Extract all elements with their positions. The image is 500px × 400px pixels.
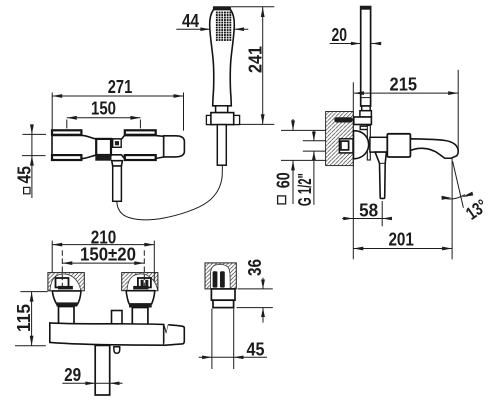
dim 201 arrow left <box>353 247 363 251</box>
dim 150 ext line left <box>66 120 68 129</box>
dim 29 arrow right <box>110 382 120 386</box>
holder clamp ring <box>360 126 370 129</box>
dim 36 stub bottom <box>262 308 264 323</box>
escutcheon plate left top <box>52 130 81 135</box>
neck left <box>59 307 75 325</box>
diverter small square <box>113 139 122 147</box>
wall section hatched block <box>326 112 354 166</box>
holder rod joint line <box>361 97 371 99</box>
hose nut right tab <box>233 115 239 124</box>
dim 210 line <box>52 244 154 246</box>
cartridge square cover <box>96 139 111 155</box>
dim 215 line <box>354 92 458 94</box>
svg-text:20: 20 <box>332 25 348 45</box>
union dome left <box>50 274 81 291</box>
dim 150pm20 arrow left <box>62 261 72 265</box>
diverter inner black square <box>115 141 119 145</box>
G half inch connection inner square <box>341 141 349 150</box>
escutcheon plate right top <box>125 130 156 135</box>
angle arc <box>445 195 466 199</box>
wall square right hatched <box>122 273 158 291</box>
G half inch ext line top <box>303 140 326 142</box>
dim 44 line <box>176 28 248 30</box>
dim sq45 stub line <box>31 127 33 199</box>
escutcheon bell right <box>126 291 155 304</box>
G half inch connection outer square <box>339 139 353 153</box>
dim 271 ext line right <box>183 93 185 131</box>
dim 45 arrow right <box>234 356 244 360</box>
holder rod top cap <box>360 6 371 10</box>
svg-text:201: 201 <box>388 229 414 249</box>
dim 150pm20 line <box>62 262 144 264</box>
escutcheon bell rim right <box>129 304 152 308</box>
water stream plumb line <box>451 159 453 260</box>
union base bar left <box>58 286 73 290</box>
dim 58 line <box>342 218 392 220</box>
svg-text:150±20: 150±20 <box>80 244 136 264</box>
bracket silhouette in wall <box>211 264 231 288</box>
hand shower top cap <box>213 6 231 9</box>
dim 115 line <box>31 292 33 346</box>
wall face line <box>352 82 354 259</box>
dim 58 ext stub lever <box>381 201 383 226</box>
spout end piece front <box>164 325 184 346</box>
svg-text:60: 60 <box>274 172 294 188</box>
dim 36 arrow top <box>261 280 265 289</box>
union nut square right <box>138 278 151 287</box>
dim 215 arrow left <box>354 91 364 95</box>
body joint line front <box>163 324 165 345</box>
dim 36 arrow bottom <box>261 308 265 317</box>
svg-text:36: 36 <box>245 259 265 276</box>
bracket body upper <box>211 289 235 300</box>
cartridge black base <box>95 155 111 161</box>
dim 210 arrow left <box>52 243 62 247</box>
dim 150pm20 arrow right <box>134 261 144 265</box>
dim 44 arrow right <box>234 27 244 31</box>
shower holder bracket front <box>112 311 123 325</box>
dim 20 arrow right <box>371 42 381 46</box>
body cube <box>387 134 410 157</box>
dim 241 ext line top <box>231 6 274 8</box>
dim 29 line <box>62 382 122 384</box>
dim 115 ext line bottom <box>15 345 46 347</box>
escutcheon plate edge-on <box>367 126 370 161</box>
G half inch ext line bottom <box>303 150 326 152</box>
G half inch stub top <box>313 131 315 141</box>
bracket anchor bar b <box>220 271 225 287</box>
dim 45 ext line left <box>211 309 213 369</box>
hand shower holder column <box>95 345 110 395</box>
dim 271 arrow left <box>52 94 62 98</box>
dim 241 ext line bottom <box>238 123 275 125</box>
svg-text:29: 29 <box>64 365 81 385</box>
body neck tube <box>370 137 387 152</box>
svg-text:115: 115 <box>14 304 34 332</box>
dim 58 arrow right <box>382 217 392 221</box>
union base bar right <box>133 286 148 290</box>
hose connector tube <box>217 125 226 166</box>
dim 60 ext line bottom <box>281 159 326 161</box>
centerline left connection <box>61 250 63 290</box>
G half inch arrow bottom <box>312 151 316 160</box>
dim 60 stub bottom <box>292 160 294 204</box>
hand shower neck <box>216 106 228 113</box>
dim 29 arrow left <box>85 382 95 386</box>
dim 60 ext line top <box>281 129 326 131</box>
shower outlet stem tube <box>113 166 122 201</box>
hose nut <box>211 113 234 125</box>
G half inch arrow top <box>312 132 316 141</box>
union inner bar b <box>145 280 148 287</box>
svg-text:215: 215 <box>390 74 418 94</box>
dim sq45 arrow bottom <box>30 156 34 166</box>
union nut square left <box>56 278 69 287</box>
escutcheon bell left <box>52 291 81 305</box>
dim 45 line <box>199 356 267 358</box>
svg-text:58: 58 <box>359 200 378 220</box>
dim 150 line <box>67 117 141 119</box>
dim 210 ext line left <box>51 241 53 273</box>
dim 150 ext line right <box>139 120 141 129</box>
dim 201 line <box>353 248 452 250</box>
svg-text:44: 44 <box>182 11 199 31</box>
dim 44 arrow left <box>200 27 210 31</box>
dim 36 ext line top <box>238 288 273 290</box>
svg-text:G 1/2": G 1/2" <box>295 173 315 206</box>
dim 20 line right <box>371 43 381 45</box>
wall dome escutcheon <box>354 131 369 159</box>
dim 60 square symbol <box>278 196 286 204</box>
wall square hatched detail <box>205 263 236 289</box>
dim 210 ext line right <box>153 241 155 290</box>
mixer body plan outline <box>52 135 164 158</box>
escutcheon plate right bottom <box>125 155 156 160</box>
dim 241 arrow top <box>261 7 265 17</box>
dim 58 arrow left <box>343 217 353 221</box>
dim 271 line <box>52 95 183 97</box>
bracket body lower <box>213 300 234 307</box>
svg-text:271: 271 <box>108 77 133 97</box>
connection black bar in wall <box>334 117 353 122</box>
hose curve from stem to hand shower <box>117 166 223 220</box>
angle arc arrow right <box>462 192 474 198</box>
spout angle 13 deg line <box>453 161 464 208</box>
hose nut left tab <box>206 115 211 124</box>
dim 115 arrow top <box>30 292 34 302</box>
spout joint line <box>163 136 165 157</box>
dim 210 arrow right <box>144 243 154 247</box>
dim 271 arrow right <box>174 94 184 98</box>
dim 271 ext line left <box>51 93 53 130</box>
wall square left hatched <box>48 273 84 291</box>
mixer body front outline <box>50 323 164 345</box>
dim 45 ext line right <box>233 309 235 369</box>
dim 215 arrow right <box>448 91 458 95</box>
G half inch stub bottom <box>313 151 315 205</box>
hand shower body outline <box>210 10 235 106</box>
svg-text:45: 45 <box>14 166 34 184</box>
dim 201 arrow right <box>442 247 452 251</box>
centerline right connection <box>143 250 145 290</box>
rod clamp nut <box>360 111 372 117</box>
dim 150 arrow left <box>67 116 77 120</box>
dim 150 arrow right <box>130 116 140 120</box>
dim 45 arrow left <box>202 356 212 360</box>
dim sq45 ext line bottom <box>22 155 46 157</box>
svg-text:150: 150 <box>91 99 116 119</box>
holder rod <box>361 7 371 106</box>
svg-text:45: 45 <box>247 340 265 360</box>
rod lower segment <box>362 106 371 111</box>
dim sq45 arrow top <box>30 124 34 134</box>
lever joint line <box>380 162 386 164</box>
dim 215 ext line right <box>457 70 459 151</box>
spout side profile <box>410 139 458 158</box>
spout plan bullet <box>164 136 185 157</box>
dim 115 ext line top <box>20 291 47 293</box>
dim sq45 square symbol <box>24 187 30 193</box>
dim 241 line <box>262 7 264 124</box>
dim 60 arrow bottom <box>291 160 295 170</box>
dim sq45 ext line top <box>23 133 47 135</box>
dim 36 stub top <box>262 278 264 289</box>
dim 20 line left <box>330 43 361 45</box>
dim 241 arrow bottom <box>261 114 265 124</box>
escutcheon bell rim left <box>57 302 78 306</box>
dim 60 arrow top <box>291 120 295 130</box>
holder arm to wall <box>354 117 372 125</box>
shower outlet stem neck <box>112 161 123 166</box>
bracket anchor bar a <box>213 271 218 287</box>
dim 36 ext line bottom <box>237 307 273 309</box>
lever handle <box>375 152 386 198</box>
escutcheon plate left bottom <box>52 155 81 160</box>
svg-text:241: 241 <box>246 46 266 73</box>
aerator detail <box>114 347 120 354</box>
union inner bar a <box>141 280 144 287</box>
dim 60 stub top <box>292 119 294 130</box>
dim 20 arrow left <box>351 42 361 46</box>
union dome right <box>127 274 158 291</box>
angle arc arrow left <box>442 196 452 200</box>
spray face grid <box>216 12 231 41</box>
joint V notch <box>164 325 168 334</box>
neck right <box>132 308 148 325</box>
dim 115 arrow bottom <box>30 336 34 346</box>
